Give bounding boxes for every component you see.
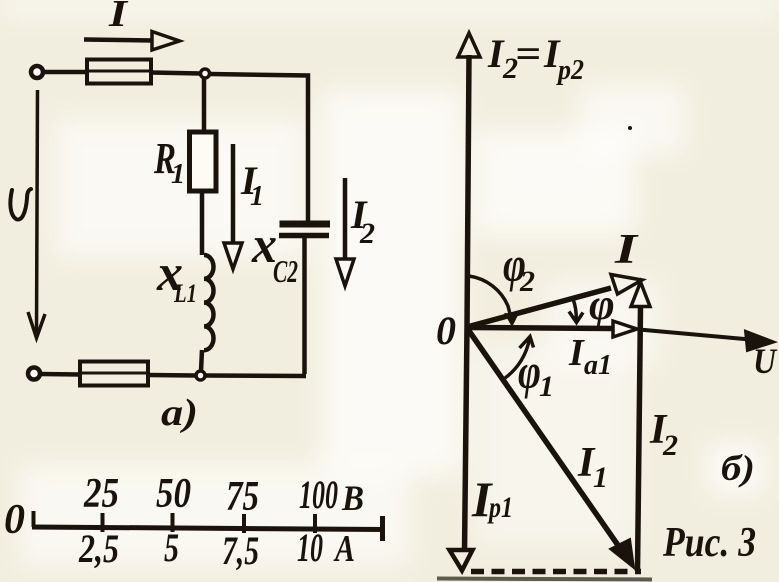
svg-text:Рис. 3: Рис. 3 [662,520,756,566]
scale labels [4,471,364,573]
svg-text:φ: φ [518,343,541,399]
svg-text:I: I [568,332,585,374]
label U (voltage, script v) [10,189,31,220]
label I1 (phasor) [577,440,608,494]
svg-text:10: 10 [297,525,323,570]
phasor vertical axis lower (Ip1) [465,327,468,552]
wire node A down to R1 [202,78,207,132]
label xC2 [251,217,298,289]
scale tick 100 [313,514,317,533]
svg-text:В: В [341,478,364,518]
svg-text:0: 0 [4,497,25,543]
scale tick 75 [242,514,246,533]
wire F2 to node B [148,373,196,378]
phasor vertical axis upper (I2 = Ip2) [467,55,469,327]
scale baseline [32,527,385,530]
node B (bottom junction) [196,371,205,380]
svg-text:2: 2 [519,265,535,298]
stray dot [628,126,632,130]
angle arrow phi [573,299,576,320]
svg-text:=: = [515,31,541,76]
voltage arrow U [37,90,38,332]
scale tick 50 [171,513,175,532]
wire terminal to fuse F2 [41,372,80,377]
wire R1 to coil [200,191,205,255]
svg-text:2: 2 [359,217,375,250]
label I2 (circuit) [350,192,375,250]
wire cap to bottom wire [302,238,307,374]
vector I1 [467,328,622,551]
resistor R1 [190,132,217,191]
fuse F2 (bottom) [80,362,148,386]
svg-text:2: 2 [662,429,678,462]
svg-text:p1: p1 [487,491,513,524]
vector I [467,288,611,327]
svg-text:б): б) [721,448,755,488]
svg-text:А: А [333,528,355,570]
svg-text:1: 1 [539,370,554,403]
wire node A to right corner [210,74,308,222]
scale tick 25 [101,513,105,532]
scale left end tick [32,511,36,527]
wire node B to right branch [205,373,306,378]
svg-text:I: I [108,0,129,35]
current arrow I1 [231,144,236,243]
svg-text:L1: L1 [173,279,197,308]
svg-text:5: 5 [164,525,179,570]
scale right end tick [380,516,385,541]
label R1 [153,134,185,190]
wire terminal to fuse [44,70,87,75]
svg-text:p2: p2 [556,55,584,86]
svg-text:C2: C2 [273,253,298,289]
fuse F1 (top) [87,60,151,84]
vector I2 (phasor, upward) [638,307,641,571]
vector Ia1 / U axis [467,328,613,329]
inductor xL1 [204,255,214,350]
svg-text:0: 0 [436,308,456,353]
dashed line bottom [471,569,641,575]
svg-text:75: 75 [226,474,259,520]
terminal bottom-left [28,368,40,380]
svg-text:a1: a1 [584,350,612,381]
label phi2 [503,236,535,298]
node A (top junction) [201,69,210,78]
label xL1 [156,245,197,308]
label Ip1 [471,471,513,527]
svg-text:а): а) [161,392,198,434]
label I2 (phasor) [649,407,678,462]
wire coil to node B [201,350,202,371]
svg-text:25: 25 [83,471,119,517]
current arrow I (top) [84,40,153,41]
angle arc phi2 [469,276,511,318]
svg-text:50: 50 [156,471,191,517]
label I1 [240,158,264,212]
svg-text:100: 100 [299,472,338,517]
label phi1 [518,343,554,403]
terminal top-left [31,66,43,78]
svg-text:1: 1 [593,461,608,494]
wire fuse to node A [151,73,201,74]
svg-text:1: 1 [250,181,264,212]
svg-text:2,5: 2,5 [78,526,119,571]
capacitor xC2 plates [280,221,331,228]
svg-text:I: I [614,227,640,273]
label I2 = Ip2 [487,31,584,86]
current arrow I2 [343,178,348,259]
label Ia1 [568,332,612,381]
svg-text:7,5: 7,5 [222,528,259,573]
angle arc phi1 [505,339,530,379]
svg-text:U: U [753,341,778,381]
svg-text:1: 1 [171,159,185,190]
svg-text:φ: φ [589,280,615,329]
